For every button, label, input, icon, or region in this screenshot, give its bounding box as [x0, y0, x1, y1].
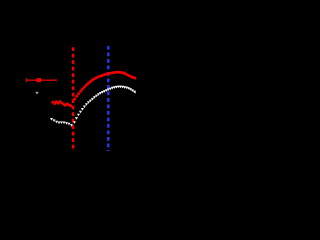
blue dashed vertical line (right wavevector marker): [107, 46, 109, 151]
legend: white open triangle: [35, 92, 38, 95]
red dashed vertical line (left wavevector marker): [72, 47, 75, 151]
red data series (filled circles): [51, 71, 136, 107]
legend: red error-bar with square marker: [26, 78, 56, 82]
white triangle data series: [50, 86, 138, 127]
